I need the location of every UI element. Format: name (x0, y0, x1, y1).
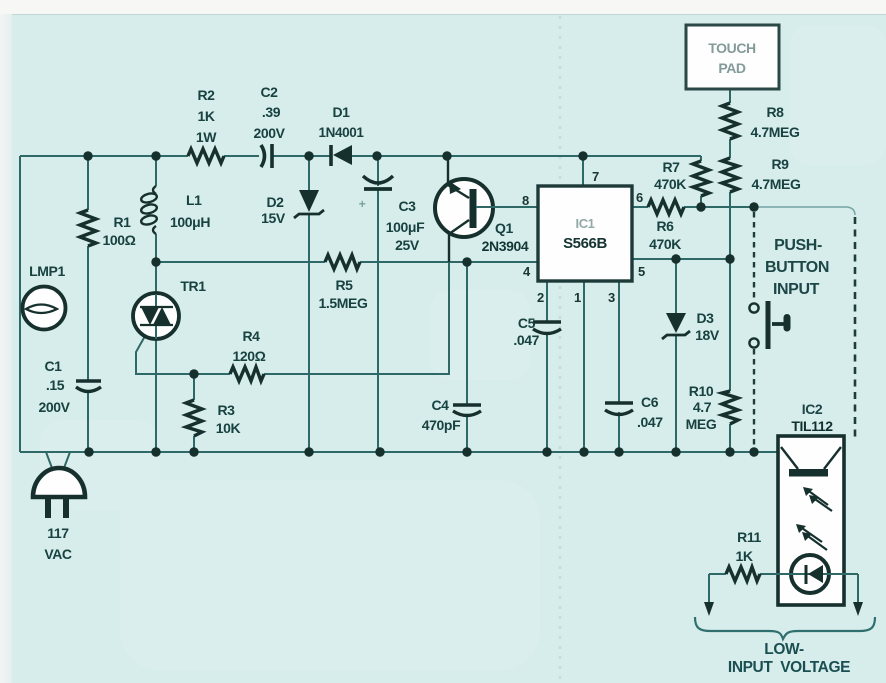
IC2 phototransistor (781, 447, 841, 477)
low input voltage left arrow (704, 574, 714, 616)
svg-text:R5: R5 (335, 277, 353, 293)
svg-text:1W: 1W (196, 129, 217, 145)
zener diode D3 (662, 310, 720, 343)
svg-text:470K: 470K (654, 176, 686, 192)
svg-text:VAC: VAC (44, 546, 72, 562)
svg-text:18V: 18V (695, 327, 720, 343)
push-button input label (765, 237, 829, 298)
svg-text:120Ω: 120Ω (233, 348, 266, 364)
wire mid rail pin4 y=262 (156, 261, 538, 263)
transistor Q1 2N3904 (435, 156, 538, 262)
svg-text:15V: 15V (261, 210, 286, 226)
inductor L1 (140, 186, 210, 234)
svg-text:.15: .15 (46, 377, 65, 393)
svg-text:117: 117 (47, 525, 69, 541)
svg-text:1K: 1K (735, 548, 752, 564)
svg-text:L1: L1 (186, 192, 202, 208)
svg-text:R9: R9 (771, 156, 789, 172)
wire IC1 pin7 x=583 (582, 156, 584, 186)
wire touch pad R8 R9 R10 branch x=730 (729, 89, 731, 452)
svg-text:D3: D3 (696, 310, 714, 326)
resistor R6 (648, 200, 684, 252)
IC U1 IC1 S566B box (538, 186, 632, 281)
svg-text:4: 4 (523, 264, 531, 279)
svg-text:S566B: S566B (563, 235, 607, 252)
svg-text:3: 3 (608, 290, 615, 305)
svg-text:R4: R4 (242, 328, 260, 344)
triac TR1 (133, 278, 206, 339)
push button switch (749, 301, 790, 349)
resistor R4 (230, 328, 266, 381)
IC2 LED (791, 555, 858, 593)
svg-text:470K: 470K (649, 236, 681, 252)
resistor R1 (80, 210, 136, 248)
wire R1 C1 branch x=88 (87, 156, 89, 452)
svg-text:100μH: 100μH (170, 214, 210, 230)
wire IC1 pin1 branch x=584 (583, 281, 585, 452)
wire R3 branch x=194 (193, 374, 195, 452)
pin 4 label (523, 264, 531, 279)
svg-text:LMP1: LMP1 (29, 263, 65, 279)
capacitor C1 (38, 358, 101, 415)
wire left AC line x=20 (19, 156, 21, 452)
wire top rail AC-DC bus y=156 (20, 155, 701, 157)
capacitor C3 (359, 176, 425, 253)
svg-text:TR1: TR1 (180, 278, 206, 294)
svg-text:10K: 10K (216, 420, 241, 436)
svg-text:TIL112: TIL112 (791, 418, 833, 434)
resistor R5 (319, 255, 368, 311)
pin 6 label (636, 190, 643, 205)
resistor R2 (188, 87, 224, 163)
svg-text:D2: D2 (266, 194, 284, 210)
svg-text:.39: .39 (262, 104, 281, 120)
svg-text:4.7MEG: 4.7MEG (751, 124, 800, 140)
svg-text:1N4001: 1N4001 (319, 125, 365, 140)
svg-text:INPUT VOLTAGE: INPUT VOLTAGE (728, 659, 850, 676)
svg-text:IC1: IC1 (575, 216, 594, 231)
wire IC1 pin2 C5 branch x=547 (546, 281, 548, 452)
svg-text:R7: R7 (662, 159, 680, 175)
svg-text:2: 2 (537, 290, 544, 305)
wire faded pin6 row to right corner (752, 207, 855, 215)
wire IC1 pin3 C6 branch x=619 (618, 281, 620, 452)
pin 7 label (592, 169, 599, 184)
svg-text:6: 6 (636, 190, 643, 205)
svg-text:R11: R11 (737, 529, 761, 545)
pin 5 label (638, 264, 645, 279)
resistor R9 (722, 156, 801, 192)
wire D3 branch x=676 (675, 259, 677, 452)
diode D1 1N4001 (319, 104, 365, 166)
svg-text:C6: C6 (641, 394, 659, 410)
optocoupler IC2 TIL112 box (778, 401, 844, 605)
capacitor C2 (253, 84, 285, 168)
svg-text:1: 1 (574, 290, 581, 305)
svg-text:4.7: 4.7 (693, 399, 712, 415)
low input voltage right arrow (853, 574, 863, 616)
svg-text:IC2: IC2 (802, 401, 823, 417)
wire L1 TR1 branch x=156 (155, 156, 157, 452)
svg-text:5: 5 (638, 264, 645, 279)
wire bottom rail y=452 (20, 451, 778, 453)
svg-text:100μF: 100μF (386, 219, 425, 235)
svg-text:25V: 25V (395, 237, 420, 253)
svg-text:100Ω: 100Ω (103, 232, 136, 248)
low input voltage brace (695, 617, 875, 676)
svg-text:TOUCH: TOUCH (708, 40, 756, 56)
pin 8 label (522, 193, 529, 208)
pin 2 label (537, 290, 544, 305)
svg-text:R1: R1 (113, 214, 131, 230)
svg-text:C3: C3 (398, 198, 416, 214)
lamp LMP1 (23, 263, 66, 330)
svg-text:7: 7 (592, 169, 599, 184)
svg-text:R8: R8 (766, 104, 784, 120)
svg-text:MEG: MEG (686, 416, 717, 432)
svg-text:4.7MEG: 4.7MEG (752, 176, 801, 192)
resistor R11 (709, 529, 791, 581)
svg-text:200V: 200V (38, 399, 70, 415)
wire TR1 gate to Q1 y=374 (136, 236, 449, 374)
svg-text:2N3904: 2N3904 (482, 238, 529, 254)
wire C3 branch x=378 (377, 156, 379, 452)
wire C4 branch x=467 (466, 262, 468, 452)
svg-text:.047: .047 (513, 332, 539, 348)
svg-text:PAD: PAD (718, 60, 746, 76)
svg-text:.047: .047 (637, 414, 663, 430)
resistor R8 (722, 103, 800, 140)
resistor R3 (186, 400, 241, 436)
svg-text:R3: R3 (217, 402, 235, 418)
svg-text:BUTTON: BUTTON (765, 259, 829, 276)
svg-text:INPUT: INPUT (773, 281, 820, 298)
zener diode D2 (261, 190, 324, 226)
resistor R7 (654, 159, 709, 196)
svg-text:R10: R10 (689, 383, 714, 399)
svg-text:R6: R6 (656, 218, 674, 234)
svg-text:C5: C5 (518, 315, 536, 331)
capacitor C5 (513, 315, 561, 348)
capacitor C6 (605, 394, 663, 430)
wire D2 branch x=309 (308, 156, 310, 452)
svg-text:1K: 1K (197, 108, 214, 124)
wire R7 branch x=701 (700, 156, 702, 207)
svg-text:200V: 200V (253, 125, 285, 141)
IC2 light arrows (796, 487, 832, 550)
svg-text:8: 8 (522, 193, 529, 208)
wire IC1 pin5 row y=259 (632, 258, 730, 260)
svg-text:Q1: Q1 (495, 220, 513, 236)
dashed wire push-button column x=754 (753, 212, 755, 446)
svg-text:+: + (359, 197, 366, 211)
svg-text:470pF: 470pF (422, 417, 461, 433)
capacitor C4 (422, 397, 481, 433)
touch pad box (686, 25, 779, 89)
wire IC1 pin6 row y=207 (632, 206, 752, 208)
AC plug 117 VAC (20, 452, 89, 562)
svg-text:PUSH-: PUSH- (774, 237, 822, 254)
dashed wire right return x=855 (854, 217, 857, 437)
svg-text:R2: R2 (197, 87, 215, 103)
pin 3 label (608, 290, 615, 305)
svg-text:LOW-: LOW- (764, 641, 804, 658)
svg-text:C1: C1 (44, 358, 62, 374)
pin 1 label (574, 290, 581, 305)
svg-text:1.5MEG: 1.5MEG (319, 295, 368, 311)
svg-text:C2: C2 (260, 84, 278, 100)
svg-text:D1: D1 (332, 104, 350, 120)
resistor R10 (686, 383, 738, 432)
svg-text:C4: C4 (431, 397, 449, 413)
